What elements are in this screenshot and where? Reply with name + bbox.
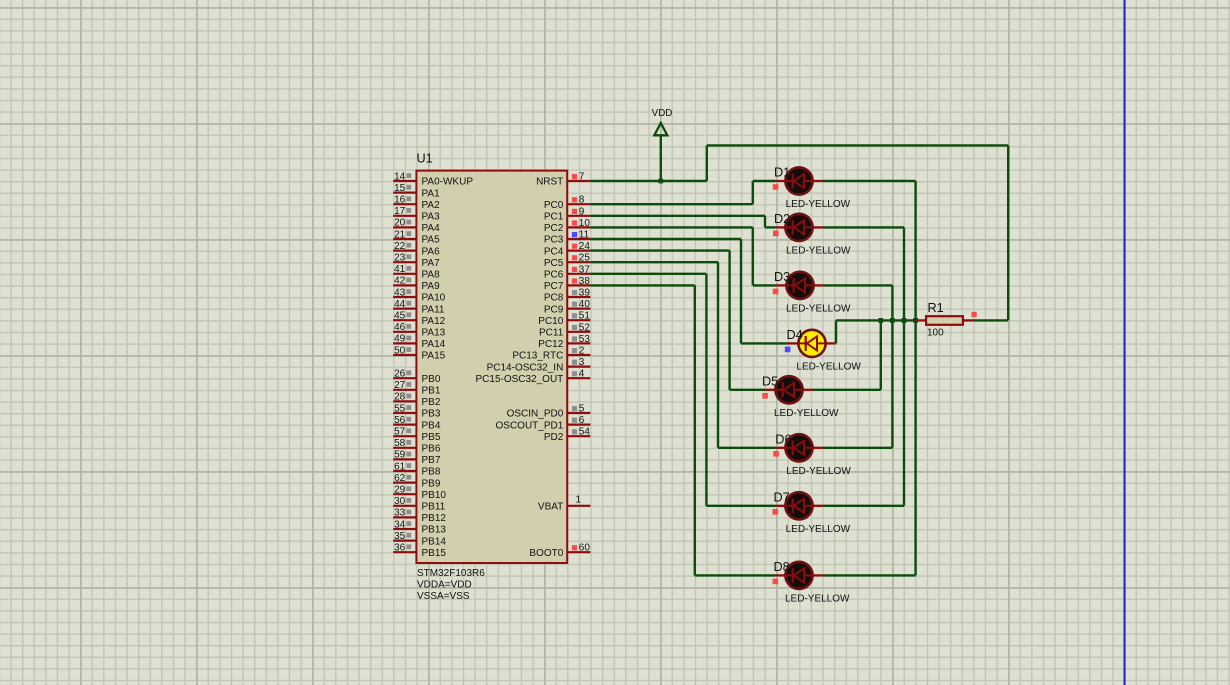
wire D6 cathode to rail <box>823 320 892 447</box>
svg-text:40: 40 <box>579 299 591 310</box>
wire D3 cathode to rail <box>824 285 892 320</box>
svg-text:23: 23 <box>394 253 406 264</box>
svg-text:53: 53 <box>579 334 591 345</box>
wire vertical NRST corner up <box>706 145 708 181</box>
svg-text:VDDA=VDD: VDDA=VDD <box>417 580 472 591</box>
svg-text:LED-YELLOW: LED-YELLOW <box>786 303 851 314</box>
wire common rail to R1 <box>836 319 916 321</box>
svg-text:PA3: PA3 <box>422 212 441 223</box>
svg-text:PB15: PB15 <box>422 548 447 559</box>
schematic sheet edge <box>1124 0 1126 685</box>
svg-text:56: 56 <box>394 415 406 426</box>
D1 value LED-YELLOW <box>786 199 851 210</box>
U1 pin 54 (PD2) <box>544 427 591 443</box>
U1 pin 57 (PB5) <box>393 427 441 443</box>
wire PC0 to D1 <box>590 181 775 204</box>
D3 state indicator <box>773 289 779 295</box>
svg-text:PA0-WKUP: PA0-WKUP <box>422 177 474 188</box>
svg-text:PB4: PB4 <box>422 420 441 431</box>
svg-text:55: 55 <box>394 403 406 414</box>
D2 reference label <box>774 212 790 226</box>
svg-text:PC11: PC11 <box>539 328 564 339</box>
D8 state indicator <box>773 579 779 585</box>
U1 pin 37 (PC6) <box>544 264 591 280</box>
svg-text:D4: D4 <box>787 328 803 342</box>
svg-text:22: 22 <box>394 241 406 252</box>
svg-text:PA12: PA12 <box>422 316 446 327</box>
U1 pin 28 (PB2) <box>393 392 441 408</box>
svg-text:PC12: PC12 <box>538 339 563 350</box>
D6 reference label <box>775 433 791 447</box>
U1 pin 22 (PA6) <box>393 241 440 257</box>
svg-text:PC2: PC2 <box>544 223 564 234</box>
wire D8 cathode to rail <box>823 320 916 575</box>
wire D2 cathode to rail <box>823 227 904 320</box>
LED D7 <box>775 492 823 519</box>
svg-text:1: 1 <box>576 494 582 505</box>
U1 pin 15 (PA1) <box>393 183 440 199</box>
U1 reference label <box>417 151 433 165</box>
svg-text:BOOT0: BOOT0 <box>529 548 563 559</box>
wire PC5 to D6 <box>590 262 775 448</box>
svg-text:30: 30 <box>394 496 406 507</box>
power symbol VDD <box>654 123 667 135</box>
svg-text:16: 16 <box>394 195 406 206</box>
svg-text:PC3: PC3 <box>544 235 564 246</box>
svg-text:7: 7 <box>579 172 585 183</box>
svg-text:LED-YELLOW: LED-YELLOW <box>786 524 851 535</box>
R1 value 100 <box>927 328 944 339</box>
svg-text:PB8: PB8 <box>422 467 441 478</box>
U1 pin 6 (OSCOUT_PD1) <box>496 415 591 431</box>
svg-text:VSSA=VSS: VSSA=VSS <box>417 591 470 602</box>
svg-text:4: 4 <box>579 369 585 380</box>
svg-text:29: 29 <box>394 485 406 496</box>
U1 pin 3 (PC14-OSC32_IN) <box>487 357 591 373</box>
junction rail 1 <box>878 318 883 323</box>
LED D2 <box>775 214 823 241</box>
svg-text:25: 25 <box>579 253 591 264</box>
wire PC1 to D2 <box>590 216 775 228</box>
U1 pin 34 (PB13) <box>393 519 446 535</box>
svg-text:61: 61 <box>394 461 406 472</box>
svg-text:34: 34 <box>394 519 406 530</box>
svg-text:PB1: PB1 <box>422 386 441 397</box>
svg-text:PB10: PB10 <box>422 490 447 501</box>
wire NRST pin7 to VDD rail corner <box>590 180 706 182</box>
U1 pin 7 (NRST) <box>536 172 590 188</box>
U1 pin 40 (PC9) <box>544 299 591 315</box>
U1 pin 36 (PB15) <box>393 543 446 559</box>
svg-text:PA1: PA1 <box>422 188 441 199</box>
U1 pin 56 (PB4) <box>393 415 441 431</box>
svg-text:6: 6 <box>579 415 585 426</box>
U1 pin 9 (PC1) <box>544 206 591 222</box>
svg-text:37: 37 <box>579 264 591 275</box>
D8 reference label <box>774 560 790 574</box>
svg-text:2: 2 <box>579 346 585 357</box>
svg-text:17: 17 <box>394 206 406 217</box>
U1 pin 49 (PA14) <box>393 334 445 350</box>
U1 pin 17 (PA3) <box>393 206 440 222</box>
U1 value STM32F103R6 <box>417 568 485 602</box>
U1 pin 35 (PB14) <box>393 531 446 547</box>
svg-text:44: 44 <box>394 299 406 310</box>
svg-text:PB14: PB14 <box>422 536 447 547</box>
U1 pin 51 (PC10) <box>538 311 590 327</box>
svg-text:28: 28 <box>394 392 406 403</box>
wire PC2 to D3 <box>590 227 776 285</box>
svg-text:PC10: PC10 <box>538 316 563 327</box>
U1 pin 26 (PB0) <box>393 369 441 385</box>
U1 pin 16 (PA2) <box>393 195 440 211</box>
svg-text:PB9: PB9 <box>422 478 441 489</box>
svg-text:PA4: PA4 <box>422 223 441 234</box>
U1 pin 24 (PC4) <box>544 241 591 257</box>
junction rail 3 <box>902 318 907 323</box>
svg-text:OSCOUT_PD1: OSCOUT_PD1 <box>496 420 564 431</box>
D3 reference label <box>774 270 790 284</box>
U1 pin 61 (PB8) <box>393 461 441 477</box>
svg-text:PA14: PA14 <box>422 339 446 350</box>
svg-text:LED-YELLOW: LED-YELLOW <box>786 199 851 210</box>
U1 pin 38 (PC7) <box>544 276 591 292</box>
U1 pin 46 (PA13) <box>393 322 445 338</box>
svg-text:PA15: PA15 <box>422 351 446 362</box>
svg-text:60: 60 <box>579 543 591 554</box>
svg-text:3: 3 <box>579 357 585 368</box>
svg-text:8: 8 <box>579 195 585 206</box>
wire R1 right to vertical <box>973 319 1008 321</box>
D5 reference label <box>762 375 778 389</box>
svg-text:45: 45 <box>394 311 406 322</box>
D4 reference label <box>787 328 803 342</box>
D3 value LED-YELLOW <box>786 303 851 314</box>
svg-text:59: 59 <box>394 450 406 461</box>
svg-text:PC4: PC4 <box>544 246 564 257</box>
U1 pin 42 (PA9) <box>393 276 440 292</box>
svg-text:PA2: PA2 <box>422 200 441 211</box>
svg-text:39: 39 <box>579 288 591 299</box>
U1 pin 4 (PC15-OSC32_OUT) <box>475 369 590 385</box>
D8 value LED-YELLOW <box>785 593 850 604</box>
R1 state indicator <box>972 312 977 317</box>
D5 value LED-YELLOW <box>774 408 839 419</box>
U1 pin 62 (PB9) <box>393 473 441 489</box>
svg-text:PB11: PB11 <box>422 502 446 513</box>
LED D5 <box>765 376 813 403</box>
svg-text:D1: D1 <box>774 166 790 180</box>
U1 pin 39 (PC8) <box>544 288 591 304</box>
svg-text:U1: U1 <box>417 151 433 165</box>
wire PC3 to D4 <box>590 239 788 343</box>
LED D3 <box>776 272 824 299</box>
svg-text:PC14-OSC32_IN: PC14-OSC32_IN <box>487 362 564 373</box>
R1 reference label <box>928 301 944 315</box>
U1 pin 30 (PB11) <box>393 496 445 512</box>
svg-text:PA13: PA13 <box>422 328 446 339</box>
svg-text:36: 36 <box>394 543 406 554</box>
svg-text:PC5: PC5 <box>544 258 564 269</box>
svg-text:LED-YELLOW: LED-YELLOW <box>774 408 839 419</box>
wire D5 cathode to rail <box>813 320 881 389</box>
svg-text:26: 26 <box>394 369 406 380</box>
svg-text:46: 46 <box>394 322 406 333</box>
U1 pin 60 (BOOT0) <box>529 543 590 559</box>
svg-text:5: 5 <box>579 404 585 415</box>
svg-text:PB5: PB5 <box>422 432 441 443</box>
D7 state indicator <box>773 509 779 515</box>
svg-text:10: 10 <box>579 218 591 229</box>
svg-text:62: 62 <box>394 473 406 484</box>
D4 value LED-YELLOW <box>796 361 861 372</box>
svg-text:PB12: PB12 <box>422 513 447 524</box>
svg-text:9: 9 <box>579 206 585 217</box>
svg-text:35: 35 <box>394 531 406 542</box>
svg-text:54: 54 <box>579 427 591 438</box>
svg-text:D8: D8 <box>774 560 790 574</box>
svg-text:49: 49 <box>394 334 406 345</box>
wire PC6 to D7 <box>590 274 775 506</box>
svg-text:D2: D2 <box>774 212 790 226</box>
svg-text:PC6: PC6 <box>544 270 564 281</box>
U1 pin 33 (PB12) <box>393 508 446 524</box>
wire PC7 to D8 <box>590 285 775 575</box>
D5 state indicator <box>762 393 768 399</box>
svg-text:PC8: PC8 <box>544 293 564 304</box>
svg-text:15: 15 <box>394 183 406 194</box>
U1 pin 53 (PC12) <box>538 334 590 350</box>
svg-text:14: 14 <box>394 171 406 182</box>
svg-text:PA11: PA11 <box>422 304 445 315</box>
U1 pin 8 (PC0) <box>544 195 591 211</box>
svg-text:R1: R1 <box>928 301 944 315</box>
svg-text:LED-YELLOW: LED-YELLOW <box>786 245 851 256</box>
svg-text:24: 24 <box>579 241 591 252</box>
U1 pin 59 (PB7) <box>393 450 441 466</box>
junction rail 2 <box>890 318 895 323</box>
svg-text:STM32F103R6: STM32F103R6 <box>417 568 485 579</box>
D2 value LED-YELLOW <box>786 245 851 256</box>
svg-text:PA7: PA7 <box>422 258 441 269</box>
svg-text:27: 27 <box>394 380 406 391</box>
wire right vertical down to R1 <box>1007 145 1009 320</box>
svg-text:D7: D7 <box>774 491 790 505</box>
svg-text:11: 11 <box>579 230 590 241</box>
D6 value LED-YELLOW <box>786 466 851 477</box>
U1 pin 14 (PA0-WKUP) <box>393 171 473 187</box>
U1 pin 27 (PB1) <box>393 380 441 396</box>
U1 pin 44 (PA11) <box>393 299 445 315</box>
svg-text:VBAT: VBAT <box>538 502 563 513</box>
LED D4 <box>788 330 836 357</box>
svg-text:PC0: PC0 <box>544 200 564 211</box>
svg-text:D5: D5 <box>762 375 778 389</box>
U1 pin 45 (PA12) <box>393 311 445 327</box>
svg-text:PC13_RTC: PC13_RTC <box>512 351 563 362</box>
svg-text:41: 41 <box>394 264 406 275</box>
svg-text:100: 100 <box>927 328 944 339</box>
D4 state indicator <box>785 347 791 353</box>
wire D7 cathode to rail <box>823 320 904 505</box>
svg-text:D3: D3 <box>774 270 790 284</box>
U1 pin 11 (PC3) <box>544 230 591 246</box>
wire D4 cathode to rail <box>835 320 837 343</box>
svg-text:PB0: PB0 <box>422 374 441 385</box>
wire D1 cathode to rail <box>823 181 916 320</box>
svg-text:PB7: PB7 <box>422 455 441 466</box>
U1 pin 10 (PC2) <box>544 218 591 234</box>
microcontroller U1 body <box>416 171 567 563</box>
junction rail 4 <box>913 318 918 323</box>
svg-text:PB13: PB13 <box>422 525 447 536</box>
D7 value LED-YELLOW <box>786 524 851 535</box>
svg-text:58: 58 <box>394 438 406 449</box>
svg-text:PB3: PB3 <box>422 409 441 420</box>
D1 reference label <box>774 166 790 180</box>
svg-text:PA5: PA5 <box>422 235 441 246</box>
U1 pin 21 (PA5) <box>393 229 440 245</box>
U1 pin 25 (PC5) <box>544 253 591 269</box>
svg-text:20: 20 <box>394 218 406 229</box>
svg-text:OSCIN_PD0: OSCIN_PD0 <box>507 409 564 420</box>
svg-text:38: 38 <box>579 276 591 287</box>
junction VDD-NRST <box>658 179 663 184</box>
U1 pin 23 (PA7) <box>393 253 440 269</box>
U1 pin 41 (PA8) <box>393 264 440 280</box>
D7 reference label <box>774 491 790 505</box>
U1 pin 50 (PA15) <box>393 345 445 361</box>
svg-text:LED-YELLOW: LED-YELLOW <box>796 361 861 372</box>
svg-text:D6: D6 <box>775 433 791 447</box>
svg-text:PA9: PA9 <box>422 281 441 292</box>
svg-text:PA6: PA6 <box>422 246 441 257</box>
VDD label <box>652 108 673 119</box>
wire PC4 to D5 <box>590 251 765 390</box>
svg-text:PB6: PB6 <box>422 444 441 455</box>
U1 pin 29 (PB10) <box>393 485 446 501</box>
svg-text:PA8: PA8 <box>422 270 441 281</box>
svg-text:52: 52 <box>579 322 591 333</box>
U1 pin 58 (PB6) <box>393 438 441 454</box>
U1 pin 52 (PC11) <box>539 322 590 338</box>
D1 state indicator <box>773 184 779 190</box>
svg-text:PB2: PB2 <box>422 397 441 408</box>
svg-text:PA10: PA10 <box>422 293 446 304</box>
svg-text:21: 21 <box>394 229 406 240</box>
svg-text:VDD: VDD <box>652 108 673 119</box>
LED D8 <box>775 562 823 589</box>
svg-text:57: 57 <box>394 427 406 438</box>
svg-text:43: 43 <box>394 287 406 298</box>
LED D1 <box>775 167 823 194</box>
D2 state indicator <box>773 231 779 237</box>
U1 pin 55 (PB3) <box>393 403 441 419</box>
U1 pin 20 (PA4) <box>393 218 440 234</box>
svg-text:PC7: PC7 <box>544 281 564 292</box>
U1 pin 5 (OSCIN_PD0) <box>507 404 591 420</box>
svg-text:NRST: NRST <box>536 177 563 188</box>
svg-text:50: 50 <box>394 345 406 356</box>
svg-text:LED-YELLOW: LED-YELLOW <box>786 466 851 477</box>
svg-text:LED-YELLOW: LED-YELLOW <box>785 593 850 604</box>
U1 pin 43 (PA10) <box>393 287 445 303</box>
svg-text:PC1: PC1 <box>544 212 564 223</box>
svg-text:51: 51 <box>579 311 591 322</box>
svg-text:33: 33 <box>394 508 406 519</box>
D6 state indicator <box>773 451 779 457</box>
LED D6 <box>775 434 823 461</box>
wire top horizontal run <box>707 144 1008 146</box>
svg-text:PC9: PC9 <box>544 304 564 315</box>
resistor R1 <box>916 316 974 325</box>
wire VDD stem <box>660 135 662 181</box>
svg-text:PD2: PD2 <box>544 432 564 443</box>
U1 pin 2 (PC13_RTC) <box>512 346 590 362</box>
svg-text:42: 42 <box>394 276 406 287</box>
U1 pin 1 (VBAT) <box>538 494 590 512</box>
svg-text:PC15-OSC32_OUT: PC15-OSC32_OUT <box>475 374 563 385</box>
